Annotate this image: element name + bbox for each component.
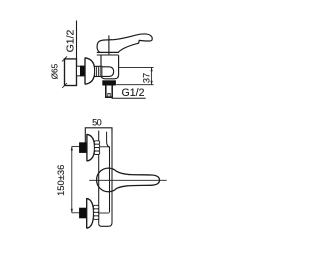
top union: extension line (72, 145, 80, 147)
body top-right flare curve (107, 132, 110, 147)
outlet pipe down (106, 85, 112, 97)
nut rib lines (96, 66, 98, 76)
ribbed union nut (side view) (95, 66, 102, 76)
svg-text:37: 37 (141, 73, 151, 83)
wire: G1/2 leader line top (76, 21, 78, 59)
37 dim extension line upper (119, 66, 154, 68)
150±36 arrow up (71, 146, 73, 150)
body barrel right line (109, 147, 111, 213)
37 dim extension line lower (116, 84, 153, 86)
body top cap edge (50 wide) (85, 128, 112, 143)
top union: flange bell (87, 134, 95, 161)
150±36 dimension line (71, 146, 73, 212)
handle knob + lever (front view) (97, 168, 160, 192)
svg-text:G1/2: G1/2 (122, 87, 145, 99)
37 arrow down (151, 81, 153, 85)
dimension tick Ø65 bottom (62, 83, 67, 88)
150±36 arrow down (71, 209, 73, 213)
svg-text:150±36: 150±36 (55, 165, 66, 196)
G1/2 outlet leader underline (112, 97, 146, 99)
bottom union: extension line (72, 212, 80, 214)
union nipple black square (80, 66, 84, 76)
centerline through handle (89, 179, 167, 181)
outlet pipe inner notch (108, 94, 110, 98)
body (side view) (101, 55, 119, 79)
collar ring lines under handle (97, 51, 119, 53)
handle lever (side view) (97, 34, 152, 52)
top union: black square (79, 143, 86, 153)
pipe line into body (bottom union) (95, 212, 110, 214)
svg-text:50: 50 (92, 118, 102, 128)
bottom union: ribbed nut (93, 205, 98, 219)
wall flange plate (side view, Ø65) (65, 59, 77, 86)
svg-text:G1/2: G1/2 (64, 29, 76, 52)
bottom union: black square (79, 208, 86, 218)
connector small box (77, 66, 81, 76)
dimension tick Ø65 top (62, 56, 67, 61)
body left edge (98, 131, 100, 224)
pipe line into body (top union) (95, 146, 110, 148)
bottom union: flange bell (87, 198, 94, 229)
handle stem edge line (108, 35, 110, 55)
body right outer edge (99, 128, 112, 227)
flange bell (D-shape) (85, 58, 95, 85)
svg-text:Ø65: Ø65 (50, 63, 59, 79)
37 arrow up (151, 67, 153, 71)
outlet nut (dark band) (103, 81, 116, 86)
top union: ribbed nut (94, 141, 99, 155)
pipe stadium cap into body (102, 67, 114, 77)
37 dimension line (151, 67, 153, 84)
